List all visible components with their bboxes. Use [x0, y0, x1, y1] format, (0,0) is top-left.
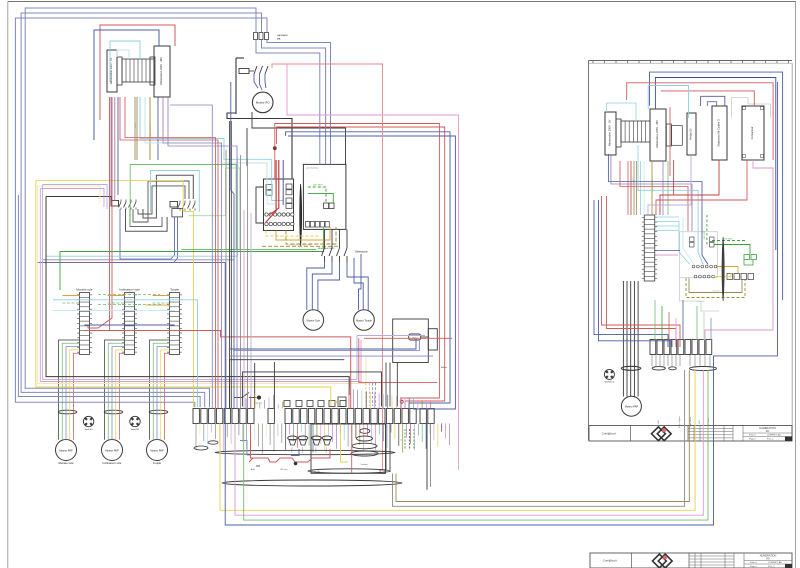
svg-text:Alimentation 230V - 36V: Alimentation 230V - 36V: [655, 120, 659, 148]
svg-text:Moteur RO: Moteur RO: [256, 101, 271, 105]
svg-text:4x0,75/0,5 mm: 4x0,75/0,5 mm: [150, 123, 152, 137]
svg-text:Moteur PAP: Moteur PAP: [59, 449, 73, 452]
svg-text:Moteur PAP: Moteur PAP: [105, 449, 119, 452]
svg-text:Alimentation 230V - 36V: Alimentation 230V - 36V: [159, 57, 163, 85]
svg-text:Voyant: Voyant: [301, 447, 304, 453]
svg-text:Ventil RO: Ventil RO: [131, 428, 140, 431]
svg-text:COFFRET_AD: COFFRET_AD: [767, 434, 781, 437]
svg-text:NUMERATION: NUMERATION: [760, 555, 777, 558]
svg-text:Sélecteur: Sélecteur: [355, 250, 368, 254]
svg-text:MA AR MA AR MA AR: MA AR MA AR MA AR: [318, 247, 335, 250]
svg-text:Toupie: Toupie: [170, 288, 179, 292]
svg-text:Ventilateur: Ventilateur: [605, 381, 615, 384]
svg-text:Relais 5V: Relais 5V: [689, 128, 693, 139]
svg-text:Disjoncteur Bit Courbe D: Disjoncteur Bit Courbe D: [718, 119, 721, 147]
svg-text:Folio n°: Folio n°: [749, 435, 756, 437]
svg-text:Ventil RO: Ventil RO: [84, 428, 93, 431]
svg-text:Montée scie: Montée scie: [76, 288, 93, 292]
svg-text:RO: RO: [766, 431, 770, 433]
svg-text:COFFRET_AD: COFFRET_AD: [768, 561, 782, 564]
svg-text:Créé@ba.fr: Créé@ba.fr: [603, 559, 618, 563]
svg-text:Moteur Toupie: Moteur Toupie: [356, 319, 372, 322]
svg-text:carte hacheur: carte hacheur: [306, 167, 319, 170]
svg-text:Voyant: Voyant: [325, 447, 328, 453]
svg-text:Tambour: Tambour: [361, 464, 368, 466]
svg-text:LED VERT: LED VERT: [704, 230, 706, 240]
svg-text:Arret: Arret: [251, 468, 256, 471]
svg-text:Voyant: Voyant: [315, 447, 318, 453]
svg-text:Folio n°: Folio n°: [750, 562, 757, 564]
svg-text:Inclinaison scie: Inclinaison scie: [103, 461, 122, 465]
svg-text:LED VERT: LED VERT: [313, 185, 324, 187]
svg-text:Moteur Scie: Moteur Scie: [307, 319, 321, 322]
svg-text:4 x 0,75/0,5 mm 3x0,75 mm: 4 x 0,75/0,5 mm 3x0,75 mm: [289, 244, 312, 246]
svg-text:Page n°: Page n°: [749, 438, 757, 440]
svg-text:Alimentation 230V - 5V: Alimentation 230V - 5V: [608, 119, 612, 146]
svg-text:4x0,75/0,5 mm: 4x0,75/0,5 mm: [652, 178, 654, 191]
svg-text:Toupie: Toupie: [153, 461, 162, 465]
svg-text:Voyant: Voyant: [291, 447, 294, 453]
svg-text:Créé@ba.fr: Créé@ba.fr: [602, 431, 617, 435]
svg-text:HACHAGE: HACHAGE: [277, 34, 288, 37]
svg-text:MA: MA: [277, 38, 281, 41]
svg-text:Moteur PAP: Moteur PAP: [150, 449, 164, 452]
svg-text:Inter RO: Inter RO: [713, 289, 720, 292]
svg-text:Prise Origine: Prise Origine: [679, 415, 681, 427]
svg-text:RO: RO: [766, 559, 770, 561]
svg-text:Arr Bord: Arr Bord: [707, 418, 710, 425]
svg-text:FOL_5: FOL_5: [767, 438, 774, 440]
svg-text:NUMERATION: NUMERATION: [759, 427, 776, 430]
svg-text:Carte fdc: Carte fdc: [312, 470, 320, 473]
svg-text:Montée scie: Montée scie: [58, 461, 74, 465]
svg-text:Moteur PAP: Moteur PAP: [625, 406, 639, 409]
svg-text:RO: RO: [699, 420, 701, 423]
svg-text:Inclinaison scie: Inclinaison scie: [119, 288, 140, 292]
svg-text:Contacteur: Contacteur: [750, 127, 754, 140]
svg-text:BP zero: BP zero: [280, 469, 288, 471]
svg-text:LED VERT: LED VERT: [724, 238, 734, 240]
